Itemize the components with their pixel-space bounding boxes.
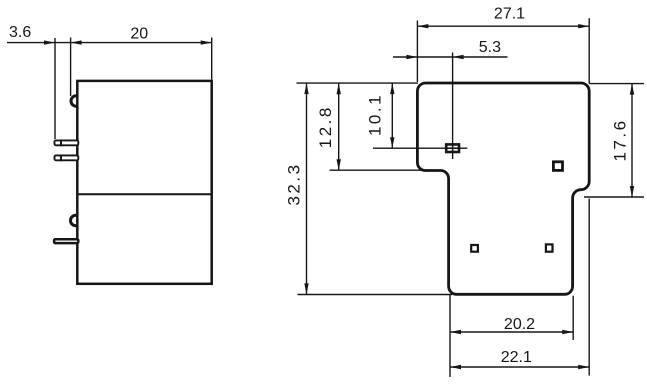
svg-text:27.1: 27.1 xyxy=(494,6,525,23)
hole marker with crosshair (5.3/10.1 datum) xyxy=(445,143,460,153)
dimension 22.1 xyxy=(450,349,589,369)
extension line right edge up xyxy=(588,18,590,83)
svg-text:22.1: 22.1 xyxy=(501,349,532,366)
square hole bottom left xyxy=(471,245,478,252)
dimension 10.1 xyxy=(365,83,394,148)
pin 1 (upper coil terminal) xyxy=(55,140,79,147)
arrow right at body right xyxy=(201,40,212,44)
svg-text:3.6: 3.6 xyxy=(9,24,31,41)
pin 2 (lower coil terminal) xyxy=(55,155,79,162)
relay body outline xyxy=(77,81,211,284)
extension line hole vertical xyxy=(452,53,454,160)
extension line body right xyxy=(211,38,213,80)
mounting boss upper (circle bump on left wall) xyxy=(71,96,82,107)
svg-text:12.8: 12.8 xyxy=(316,105,335,148)
extension line bottom-right lower edge xyxy=(572,296,574,340)
extension line lower-right edge down xyxy=(588,199,590,376)
extension line step edge right xyxy=(584,196,644,198)
square hole top right xyxy=(553,162,562,171)
mounting boss lower (circle bump on left wall) xyxy=(71,215,82,226)
extension line top-left edge xyxy=(297,82,419,84)
dimension 5.3 xyxy=(393,39,508,59)
svg-text:20: 20 xyxy=(130,25,148,42)
footprint outline xyxy=(417,83,589,294)
arrow left at boss edge xyxy=(71,40,82,44)
dimension 17.6 xyxy=(611,84,635,197)
extension line bottom edge left xyxy=(298,294,453,296)
extension line bottom-left lower edge xyxy=(449,295,451,378)
extension line left edge up xyxy=(416,21,418,83)
square hole bottom right xyxy=(546,244,553,251)
extension line top-right edge xyxy=(589,83,644,85)
pin 3 (contact terminal) xyxy=(54,239,78,243)
dimension 32.3 xyxy=(285,83,309,294)
dimension line 3.6 / 20 xyxy=(7,42,212,44)
svg-text:10.1: 10.1 xyxy=(365,93,384,136)
svg-text:32.3: 32.3 xyxy=(285,162,304,205)
svg-text:5.3: 5.3 xyxy=(479,39,501,56)
svg-text:17.6: 17.6 xyxy=(611,118,630,161)
extension line boss edge xyxy=(70,38,72,97)
extension line hole horizontal xyxy=(373,147,467,149)
extension line step edge left xyxy=(330,169,428,171)
dimension 20.2 xyxy=(450,316,573,334)
arrow right at pin tip xyxy=(44,40,55,44)
dimension 27.1 xyxy=(417,6,589,29)
body parting line xyxy=(77,193,211,195)
dimension 12.8 xyxy=(316,83,341,170)
svg-text:20.2: 20.2 xyxy=(504,316,535,333)
extension line pin tip xyxy=(54,38,56,139)
